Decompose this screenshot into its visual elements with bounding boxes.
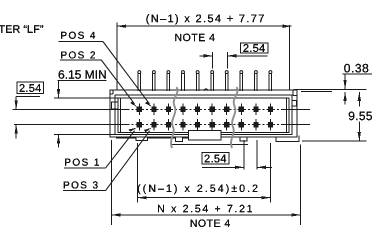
contact row 2 centerline dash-dot middle [122,124,288,126]
POS 3 label [64,181,98,188]
contact row 2 centerline solid left segment [14,124,122,126]
cavity inner wall line right [286,98,288,132]
0.38 reference line upper [294,88,367,90]
0.38 reference line lower [301,90,332,92]
connector body outer shroud [110,90,297,137]
contact row 2 centerline solid right segment [288,124,310,126]
N x 2.54 + 7.21 text [158,205,252,212]
6.15 MIN text [59,70,106,79]
contact row 1 centerline dash-dot middle [122,108,288,110]
((N-1) x 2.54) +/-0.2 extension line left [137,143,139,202]
molding mark bump on body top [204,89,208,91]
bottom 2.54 boxed text [202,153,229,165]
contact squares row 1 with vertical ticks [137,104,273,115]
6.15 top reference line [54,97,118,99]
((N-1) x 2.54) +/-0.2 dimension line [138,196,271,199]
6.15 MIN underline leader [58,80,107,82]
center polarization tab [188,130,221,140]
((N-1) x 2.54) +/-0.2 text [138,184,258,194]
right wall polarization slot [292,101,297,106]
bottom right base step [276,136,299,142]
bottom NOTE 4 text [191,219,230,226]
9.55 text [349,112,372,121]
9.55 bottom reference line [302,140,367,142]
POS 1 leader [64,128,137,168]
6.15 bottom reference line (cavity floor extension) [54,133,115,135]
contact row 1 centerline solid left segment [13,108,123,110]
bottom stepped profile right of tab [221,137,276,141]
top pins row [138,71,272,91]
top dimension extension line right [289,25,291,90]
bottom base line [172,143,248,145]
((N-1) x 2.54) +/-0.2 extension line right [269,143,271,202]
break squiggle line 2 [231,87,237,148]
TER "LF" text (cut off at left) [0,25,43,32]
POS 1 label [65,159,99,166]
6.15 dimension arrows [57,81,60,148]
bottom stepped profile left [116,137,188,142]
shroud inner wall rectangle 2 (cavity opening) [118,98,289,132]
top dimension extension line left [116,23,118,91]
bottom 2.54 extension lines [243,140,245,170]
left 2.54 leader under box [16,96,40,98]
cavity inner wall line left [120,98,122,132]
POS 4 leader [59,42,152,107]
POS 3 leader [63,128,152,191]
contact squares row 2 with vertical ticks [137,119,273,130]
left wall polarization slot [112,102,119,109]
contact row 1 centerline solid right segment [288,108,310,110]
POS 2 leader [60,60,137,107]
shroud inner wall rectangle 1 [115,95,292,134]
0.38 dimension arrows [343,74,346,105]
top NOTE 4 text [175,34,214,41]
POS 4 label [61,32,95,39]
top dimension text [146,14,263,24]
left 2.54 boxed text [17,82,43,93]
top center 2.54 tick extension lines [212,52,214,69]
bottom 2.54 dimension arrows [202,166,272,169]
0.38 underline leader [342,73,372,75]
N x 2.54 + 7.21 dimension line [111,213,300,216]
top 2.54 boxed text [240,43,268,53]
9.55 dimension line with arrows [358,92,361,141]
N x 2.54 + 7.21 extension line right [299,145,301,226]
0.38 text [344,64,368,73]
break squiggle line 1 [171,87,177,148]
top dimension line (N-1) x 2.54 + 7.77 [117,25,292,28]
top center 2.54 dimension arrows [199,54,267,57]
body top-left corner step [110,90,113,94]
left 2.54 dimension arrows (row pitch) [15,97,18,139]
body top-right corner step [293,90,297,96]
N x 2.54 + 7.21 extension line left [110,140,112,225]
POS 2 label [61,51,95,58]
